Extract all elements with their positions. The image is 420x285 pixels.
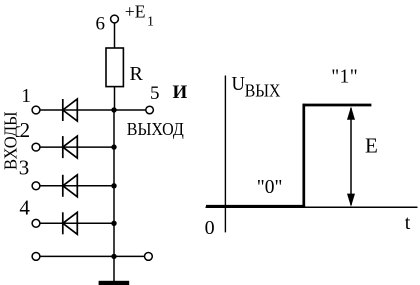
node: junction row 4 — [111, 221, 116, 226]
svg-text:U: U — [232, 73, 246, 95]
y-axis (Uвых) — [224, 76, 226, 233]
input terminal 1 — [32, 106, 40, 114]
resistor R — [106, 48, 123, 87]
net label +E1 — [125, 1, 154, 29]
svg-text:"0": "0" — [257, 177, 283, 198]
svg-text:5: 5 — [150, 83, 160, 104]
wire: output node to terminal 5 — [114, 109, 146, 111]
ground — [99, 281, 130, 285]
wire: junction to ground — [113, 256, 115, 281]
common rail terminal (left) — [32, 253, 40, 261]
svg-text:ВЫХ: ВЫХ — [245, 80, 281, 100]
input terminal 4 — [32, 219, 40, 227]
waveform: low level segment — [206, 205, 305, 208]
svg-text:ВХОДЫ: ВХОДЫ — [1, 111, 21, 170]
node: junction row 2 — [111, 144, 116, 149]
diode VD2 — [63, 136, 78, 158]
node: ground junction — [111, 254, 116, 259]
wire: input 1 to bus — [40, 109, 114, 111]
common rail terminal (right) — [145, 253, 153, 261]
input terminal 2 — [32, 143, 40, 151]
wire: resistor R to output node (bus) — [114, 87, 116, 110]
wire: input 2 to bus — [40, 146, 114, 148]
diode VD1 — [63, 99, 78, 121]
dimension arrow E (double headed) — [347, 107, 355, 207]
svg-text:4: 4 — [19, 196, 30, 220]
svg-text:И: И — [173, 82, 188, 103]
node: junction row 1 (output node) — [111, 107, 116, 112]
terminal 6 (+E1 supply terminal) — [111, 15, 119, 23]
wire: terminal 6 to resistor R — [114, 23, 116, 49]
svg-text:"1": "1" — [331, 67, 358, 88]
svg-text:+E: +E — [125, 1, 146, 21]
wire: input 3 to bus — [40, 185, 114, 187]
svg-text:R: R — [130, 63, 144, 85]
svg-text:1: 1 — [147, 15, 154, 30]
wire: common rail — [40, 255, 145, 257]
node: junction row 3 — [111, 183, 116, 188]
x-axis (t) — [206, 206, 418, 208]
svg-text:ВЫХОД: ВЫХОД — [127, 119, 184, 139]
svg-text:2: 2 — [20, 118, 31, 142]
input terminal 3 — [32, 182, 40, 190]
svg-text:6: 6 — [96, 14, 106, 35]
svg-text:t: t — [405, 212, 411, 234]
diode VD4 — [63, 212, 78, 234]
wire: vertical bus from node 5 to common rail — [113, 110, 115, 256]
waveform: rising edge — [302, 104, 305, 208]
terminal 5 (output terminal) — [146, 106, 154, 114]
waveform: high level segment — [303, 104, 372, 107]
svg-text:0: 0 — [205, 217, 215, 239]
wire: input 4 to bus — [40, 222, 114, 224]
svg-text:1: 1 — [21, 86, 31, 107]
diode VD3 — [63, 175, 78, 197]
axis label U вых — [232, 73, 281, 100]
svg-text:E: E — [365, 133, 378, 157]
